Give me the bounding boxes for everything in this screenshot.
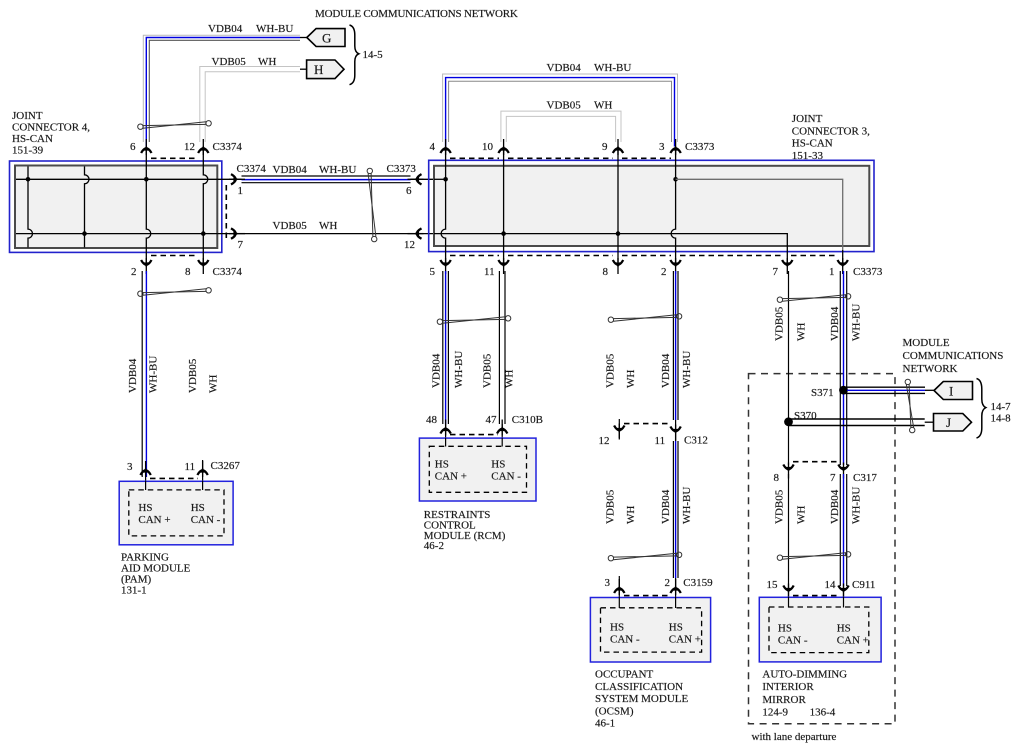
pin 1 arrow (C3373 bottom) bbox=[838, 258, 848, 274]
connector J bbox=[934, 414, 972, 432]
pin 48 arrow (C310B) bbox=[440, 420, 450, 436]
svg-text:8: 8 bbox=[185, 266, 191, 278]
splice S371 bbox=[839, 386, 848, 395]
wire VDB05 WH from C3373 pin 11 to RCM pin 47 bbox=[499, 271, 505, 447]
svg-text:WH: WH bbox=[796, 323, 808, 341]
connector G bbox=[307, 29, 345, 47]
svg-text:7: 7 bbox=[773, 266, 779, 278]
svg-text:VDB04: VDB04 bbox=[660, 489, 672, 524]
splice S370 bbox=[784, 417, 793, 426]
svg-text:2: 2 bbox=[661, 266, 667, 278]
label AUTO-DIMMING INTERIOR MIRROR 124-9 136-4 bbox=[762, 668, 847, 718]
C312 pin 12 stub bbox=[618, 419, 620, 438]
svg-text:C3374: C3374 bbox=[213, 266, 243, 278]
svg-text:(OCSM): (OCSM) bbox=[595, 705, 634, 717]
svg-text:11: 11 bbox=[484, 266, 495, 278]
svg-text:VDB05: VDB05 bbox=[482, 353, 494, 388]
svg-text:J: J bbox=[946, 415, 951, 430]
svg-text:C3373: C3373 bbox=[685, 141, 715, 153]
JC3 pin 10/11 vertical (dot bottom bus) bbox=[503, 149, 505, 262]
brace for I/J bbox=[977, 379, 986, 439]
wire VDB05 WH from C3374 pin 12 to connector H bbox=[200, 67, 307, 143]
svg-text:MODULE: MODULE bbox=[903, 337, 950, 349]
svg-text:1: 1 bbox=[238, 185, 244, 197]
svg-text:151-39: 151-39 bbox=[12, 145, 44, 157]
svg-text:CAN -: CAN - bbox=[491, 471, 521, 483]
arrow C3374 pin 1 (points right) bbox=[229, 174, 245, 184]
svg-text:48: 48 bbox=[426, 414, 438, 426]
dashed connector line C3159 bbox=[624, 595, 671, 597]
twisted pair symbol (mirror branch upper) bbox=[777, 294, 851, 303]
wire VDB04 WH-BU from C317 pin 7 to C911 pin 14 bbox=[840, 474, 846, 608]
dashed connector line C3374 top bbox=[151, 157, 198, 159]
svg-text:AUTO-DIMMING: AUTO-DIMMING bbox=[762, 668, 847, 680]
pin 10 arrow (C3373 top) bbox=[498, 139, 508, 155]
dashed connector line C317 bbox=[793, 461, 839, 463]
pin 11 arrow (C3267) bbox=[197, 461, 207, 477]
pin 11 arrow (C312, down) bbox=[670, 425, 680, 441]
svg-text:2: 2 bbox=[665, 577, 671, 589]
svg-text:VDB05: VDB05 bbox=[187, 358, 199, 393]
OCSM HS CAN text bbox=[610, 622, 701, 646]
svg-text:HS: HS bbox=[435, 459, 449, 471]
svg-text:WH-BU: WH-BU bbox=[453, 351, 465, 388]
pin 8 arrow (C3373 bottom) bbox=[613, 258, 623, 274]
svg-text:WH: WH bbox=[208, 375, 220, 393]
pin 3 arrow (C3267) bbox=[140, 461, 150, 477]
arrow C3374 pin 7 (points right) bbox=[229, 228, 245, 238]
twisted pair symbol (I/J wires, vertical) bbox=[905, 379, 915, 433]
svg-text:6: 6 bbox=[406, 185, 412, 197]
JC4 internal vertical 2 (hop top bus, dot bottom bus) bbox=[85, 167, 90, 248]
pin 2 arrow (C3159) bbox=[670, 579, 680, 595]
svg-text:VDB05: VDB05 bbox=[774, 489, 786, 524]
JC3 internal path to pin 1 (gray) bbox=[676, 179, 843, 250]
svg-text:12: 12 bbox=[184, 141, 195, 153]
svg-text:CAN -: CAN - bbox=[610, 634, 640, 646]
wire VDB04 WH-BU from C3373 pin 5 to RCM pin 48 bbox=[443, 271, 449, 447]
JC4 internal bottom bus VDB05 bbox=[16, 233, 217, 235]
svg-text:WH-BU: WH-BU bbox=[148, 356, 160, 393]
twisted pair symbol (OCSM branch lower) bbox=[608, 552, 682, 561]
svg-text:2: 2 bbox=[131, 266, 137, 278]
svg-text:WH: WH bbox=[796, 506, 808, 524]
mirror inner dashed box bbox=[769, 607, 869, 653]
JC4 internal vertical 1 (dot top bus, hop bottom bus) bbox=[28, 167, 33, 248]
svg-text:9: 9 bbox=[602, 141, 608, 153]
svg-text:HS: HS bbox=[491, 459, 505, 471]
wire VDB04 WH-BU from C312 pin 11 to C3159 pin 2 bbox=[673, 441, 678, 608]
wire VDB05 WH from C3374 pin 7 to C3373 pin 12 (middle run) bbox=[217, 233, 434, 235]
svg-text:WH-BU: WH-BU bbox=[256, 23, 293, 35]
wire labels OCSM branch upper bbox=[605, 351, 694, 388]
dashed connector line C3374 right side bbox=[225, 185, 227, 239]
svg-text:131-1: 131-1 bbox=[121, 585, 147, 597]
svg-text:HS-CAN: HS-CAN bbox=[12, 133, 53, 145]
pin 14 arrow (C911, down) bbox=[838, 584, 848, 600]
JC3 pin 4/5 vertical (dot top, hop bottom bus) bbox=[441, 149, 446, 262]
dashed connector line C3373 bottom bbox=[450, 255, 499, 257]
svg-text:4: 4 bbox=[430, 141, 436, 153]
svg-text:HS-CAN: HS-CAN bbox=[792, 138, 833, 150]
svg-text:11: 11 bbox=[185, 461, 196, 473]
svg-text:14-5: 14-5 bbox=[363, 49, 384, 61]
RCM inner dashed box bbox=[429, 446, 526, 492]
pin 4 arrow (C3373 top) bbox=[440, 139, 450, 155]
pin 2 arrow (C3373 bottom) bbox=[670, 258, 680, 274]
RCM pin 48 stub inside box bbox=[445, 438, 447, 447]
svg-text:8: 8 bbox=[603, 266, 609, 278]
svg-text:with lane departure: with lane departure bbox=[752, 731, 837, 743]
twisted pair symbol (RCM branch) bbox=[437, 316, 511, 325]
svg-text:HS: HS bbox=[610, 622, 624, 634]
svg-text:15: 15 bbox=[767, 579, 779, 591]
svg-text:S371: S371 bbox=[811, 387, 834, 399]
pin 12 arrow (C312, down) bbox=[614, 424, 624, 440]
svg-text:SYSTEM MODULE: SYSTEM MODULE bbox=[595, 693, 688, 705]
svg-text:VDB04: VDB04 bbox=[660, 353, 672, 388]
svg-text:3: 3 bbox=[605, 577, 611, 589]
wire VDB04 WH-BU from C3374 pin 1 to C3373 pin 6 (middle run) bbox=[217, 176, 434, 183]
C911 pin stubs into mirror box bbox=[788, 593, 790, 608]
pin 5 arrow (C3373 bottom) bbox=[440, 258, 450, 274]
svg-text:VDB04: VDB04 bbox=[547, 62, 582, 74]
svg-text:HS: HS bbox=[669, 622, 683, 634]
dashed connector line C310B bbox=[450, 434, 498, 436]
svg-text:I: I bbox=[949, 384, 953, 399]
svg-text:124-9: 124-9 bbox=[762, 707, 788, 719]
wire VDB04 WH-BU from C3374 pin 6 to connector G bbox=[143, 35, 307, 146]
PAM pin 3 stub inside box bbox=[145, 481, 147, 490]
pin 12 arrow (C3374 top) bbox=[198, 139, 208, 155]
arrow C3373 pin 6 (points left) bbox=[408, 174, 424, 184]
svg-text:C911: C911 bbox=[852, 579, 875, 591]
mirror HS CAN text bbox=[778, 623, 869, 647]
svg-text:C3373: C3373 bbox=[387, 163, 417, 175]
mirror pin 15 stub inside box bbox=[788, 597, 790, 608]
JC4 pin 12/8 vertical (hop top bus, dot bottom bus) bbox=[203, 149, 208, 262]
svg-text:8: 8 bbox=[774, 472, 780, 484]
svg-text:CAN -: CAN - bbox=[778, 635, 808, 647]
arrow C3373 pin 12 (points left) bbox=[408, 228, 424, 238]
svg-text:136-4: 136-4 bbox=[810, 707, 836, 719]
twisted pair symbol (PAM branch) bbox=[138, 288, 212, 297]
svg-text:CLASSIFICATION: CLASSIFICATION bbox=[595, 681, 683, 693]
svg-text:WH-BU: WH-BU bbox=[681, 487, 693, 524]
dashed connector line C911 bbox=[793, 595, 839, 597]
svg-text:7: 7 bbox=[238, 239, 244, 251]
svg-text:HS: HS bbox=[191, 502, 205, 514]
svg-text:CAN +: CAN + bbox=[837, 635, 869, 647]
dashed connector line C312 bbox=[624, 423, 671, 425]
svg-text:VDB04: VDB04 bbox=[829, 489, 841, 524]
JC3 pin 3/2 vertical (dot at top, hop bottom bus) bbox=[671, 149, 676, 262]
svg-text:VDB05: VDB05 bbox=[774, 306, 786, 341]
big dashed box (with lane departure) bbox=[749, 374, 896, 724]
svg-text:MIRROR: MIRROR bbox=[762, 694, 806, 706]
wire labels RCM branch bbox=[431, 351, 516, 388]
pin 47 arrow (C310B) bbox=[497, 420, 507, 436]
wire VDB04 WH-BU from C3374 pin 2 to PAM pin 3 bbox=[142, 271, 146, 490]
svg-text:12: 12 bbox=[599, 435, 610, 447]
auto-dimming interior mirror box bbox=[759, 597, 881, 662]
label JOINT CONNECTOR 4, HS-CAN 151-39 bbox=[12, 110, 90, 157]
svg-text:VDB04: VDB04 bbox=[127, 358, 139, 393]
occupant classification system module OCSM box bbox=[590, 598, 710, 663]
svg-text:WH-BU: WH-BU bbox=[851, 487, 863, 524]
wire VDB04 WH-BU from S371 to connector I bbox=[844, 387, 935, 393]
svg-text:MODULE COMMUNICATIONS NETWORK: MODULE COMMUNICATIONS NETWORK bbox=[315, 8, 518, 20]
svg-text:VDB05: VDB05 bbox=[605, 489, 617, 524]
svg-text:VDB05: VDB05 bbox=[605, 353, 617, 388]
pin 7 arrow (C3373 bottom) bbox=[782, 258, 792, 274]
wire VDB05 WH from C317 pin 8 to C911 pin 15 bbox=[788, 474, 790, 593]
wire VDB04 WH-BU from C3373 pin 2 to C312 pin 11 bbox=[673, 271, 678, 441]
svg-text:HS: HS bbox=[138, 502, 152, 514]
wire VDB04 WH-BU jumper C3373 pin 4 to pin 3 bbox=[443, 74, 678, 147]
pin 3 arrow (C3373 top) bbox=[670, 139, 680, 155]
svg-text:H: H bbox=[314, 62, 323, 77]
svg-text:151-33: 151-33 bbox=[792, 150, 824, 162]
wire VDB04 WH-BU from C3373 pin 1 to C317 pin 7 bbox=[840, 271, 846, 465]
parking aid module PAM box bbox=[119, 481, 233, 545]
JC4 internal top bus VDB04 bbox=[16, 178, 217, 180]
pin 8 arrow (C3374 bottom) bbox=[198, 258, 208, 274]
svg-text:10: 10 bbox=[482, 141, 494, 153]
label JOINT CONNECTOR 3, HS-CAN 151-33 bbox=[792, 113, 870, 162]
svg-text:46-1: 46-1 bbox=[595, 718, 615, 730]
svg-text:WH: WH bbox=[258, 56, 276, 68]
svg-text:C312: C312 bbox=[684, 435, 708, 447]
restraints control module RCM box bbox=[419, 438, 536, 501]
svg-text:COMMUNICATIONS: COMMUNICATIONS bbox=[903, 350, 1004, 362]
svg-text:7: 7 bbox=[830, 472, 836, 484]
dashed connector line C3267 bbox=[150, 477, 198, 479]
svg-text:5: 5 bbox=[430, 266, 436, 278]
svg-text:JOINT: JOINT bbox=[12, 110, 43, 122]
joint connector 4 inner body bbox=[15, 166, 217, 249]
label OCCUPANT CLASSIFICATION SYSTEM MODULE (OCSM) 46-1 bbox=[595, 669, 688, 730]
dashed connector line C3374 bottom bbox=[151, 255, 198, 257]
label MODULE COMMUNICATIONS NETWORK (right) bbox=[903, 337, 1004, 375]
C317 pin 8 arrow (down) bbox=[783, 463, 793, 479]
svg-text:1: 1 bbox=[829, 266, 835, 278]
svg-text:46-2: 46-2 bbox=[424, 540, 444, 552]
JC4 pin 6/2 vertical (dot top bus, hop bottom bus) bbox=[146, 149, 151, 262]
C317 pin 7 arrow (down) bbox=[838, 463, 848, 479]
twisted pair symbol (middle runs, vertical) bbox=[367, 168, 377, 242]
svg-text:WH: WH bbox=[594, 100, 612, 112]
wire labels OCSM branch lower bbox=[605, 487, 694, 524]
connector I bbox=[934, 382, 973, 400]
svg-text:CAN +: CAN + bbox=[138, 514, 170, 526]
svg-text:WH-BU: WH-BU bbox=[851, 304, 863, 341]
svg-text:47: 47 bbox=[486, 414, 498, 426]
svg-text:HS: HS bbox=[778, 623, 792, 635]
svg-text:WH: WH bbox=[504, 370, 516, 388]
twisted pair symbol (mirror branch lower) bbox=[777, 552, 851, 561]
PAM inner dashed box bbox=[129, 490, 224, 536]
svg-text:CAN +: CAN + bbox=[435, 471, 467, 483]
svg-text:CONNECTOR 3,: CONNECTOR 3, bbox=[792, 125, 870, 137]
svg-text:OCCUPANT: OCCUPANT bbox=[595, 669, 654, 681]
svg-text:C3374: C3374 bbox=[213, 141, 243, 153]
PAM HS CAN + text bbox=[138, 502, 220, 526]
JC3 entry stub VDB04 (left) bbox=[434, 178, 446, 180]
svg-text:14-7: 14-7 bbox=[991, 401, 1012, 413]
wire VDB05 WH from C3374 pin 8 to PAM pin 11 (white, invisible run) bbox=[202, 460, 204, 490]
dashed connector line C3373 top bbox=[450, 157, 499, 159]
connector H bbox=[307, 60, 344, 79]
svg-text:C3374: C3374 bbox=[237, 163, 267, 175]
pin 9 arrow (C3373 top) bbox=[613, 139, 623, 155]
twisted pair symbol above C3374 pins 6/12 bbox=[138, 121, 212, 130]
svg-text:INTERIOR: INTERIOR bbox=[762, 681, 814, 693]
svg-text:G: G bbox=[322, 31, 331, 46]
svg-text:14-8: 14-8 bbox=[991, 413, 1012, 425]
svg-text:NETWORK: NETWORK bbox=[903, 363, 958, 375]
OCSM pin 2 stub inside box bbox=[675, 597, 677, 608]
svg-text:WH-BU: WH-BU bbox=[319, 164, 356, 176]
svg-text:VDB04: VDB04 bbox=[273, 164, 308, 176]
svg-text:CAN -: CAN - bbox=[191, 514, 221, 526]
twisted pair symbol (OCSM branch upper) bbox=[608, 314, 682, 323]
svg-text:VDB05: VDB05 bbox=[547, 100, 582, 112]
wire labels mirror branch upper bbox=[774, 304, 863, 341]
wire label VDB04 (PAM) bbox=[127, 356, 220, 393]
svg-text:12: 12 bbox=[404, 239, 415, 251]
svg-text:VDB04: VDB04 bbox=[431, 353, 443, 388]
svg-text:WH-BU: WH-BU bbox=[594, 62, 631, 74]
label RESTRAINTS CONTROL MODULE (RCM) 46-2 bbox=[424, 509, 506, 552]
svg-text:WH: WH bbox=[625, 506, 637, 524]
RCM HS CAN text bbox=[435, 459, 521, 483]
svg-text:14: 14 bbox=[825, 579, 837, 591]
svg-text:WH-BU: WH-BU bbox=[681, 351, 693, 388]
wire VDB05 WH C312 pin 12 to C3159 pin 3 (white, invisible run) bbox=[618, 576, 620, 608]
brace for G/H bbox=[350, 25, 359, 85]
svg-text:VDB05: VDB05 bbox=[273, 220, 308, 232]
svg-text:6: 6 bbox=[130, 141, 136, 153]
svg-text:VDB05: VDB05 bbox=[212, 56, 247, 68]
joint connector 4 box (outer blue) bbox=[10, 161, 222, 252]
joint connector 3 inner body bbox=[434, 166, 869, 246]
svg-text:S370: S370 bbox=[794, 410, 817, 422]
OCSM inner dashed box bbox=[601, 608, 702, 652]
svg-text:3: 3 bbox=[127, 461, 133, 473]
svg-text:JOINT: JOINT bbox=[792, 113, 823, 125]
svg-text:C3373: C3373 bbox=[853, 266, 883, 278]
JC3 bottom bus VDB05 bbox=[434, 234, 787, 262]
svg-text:11: 11 bbox=[655, 435, 666, 447]
OCSM pin 3 stub inside box bbox=[618, 597, 620, 608]
joint connector 3 box (outer blue) bbox=[429, 160, 874, 251]
RCM pin 47 stub inside box bbox=[501, 438, 503, 447]
pin 11 arrow (C3373 bottom) bbox=[498, 258, 508, 274]
svg-text:CAN +: CAN + bbox=[669, 634, 701, 646]
svg-text:C3159: C3159 bbox=[683, 577, 713, 589]
wire VDB05 WH from C3373 pin 7 to C317 pin 8 bbox=[788, 271, 790, 465]
svg-text:WH: WH bbox=[625, 370, 637, 388]
svg-text:WH: WH bbox=[319, 220, 337, 232]
svg-text:3: 3 bbox=[659, 141, 665, 153]
pin 3 arrow (C3159) bbox=[614, 579, 624, 595]
wire VDB05 WH jumper C3373 pin 10 to pin 9 bbox=[501, 111, 621, 142]
mirror pin 14 stub inside box bbox=[843, 597, 845, 608]
svg-text:C317: C317 bbox=[853, 472, 877, 484]
svg-text:C310B: C310B bbox=[512, 414, 543, 426]
svg-text:HS: HS bbox=[837, 623, 851, 635]
svg-text:VDB04: VDB04 bbox=[829, 306, 841, 341]
JC3 pin 9/8 vertical (dot bottom bus) bbox=[617, 149, 619, 262]
wire labels mirror branch lower bbox=[774, 487, 863, 524]
pin 15 arrow (C911, down) bbox=[783, 584, 793, 600]
PAM pin 11 stub inside box bbox=[202, 481, 204, 490]
svg-text:C3267: C3267 bbox=[211, 460, 241, 472]
svg-text:CONNECTOR 4,: CONNECTOR 4, bbox=[12, 122, 90, 134]
pin 6 arrow (C3374 top) bbox=[141, 139, 151, 155]
pin 2 arrow (C3374 bottom) bbox=[141, 258, 151, 274]
label PARKING AID MODULE (PAM) 131-1 bbox=[121, 552, 191, 597]
svg-text:VDB04: VDB04 bbox=[208, 23, 243, 35]
wire VDB05 WH from S370 to connector J bbox=[789, 419, 934, 426]
